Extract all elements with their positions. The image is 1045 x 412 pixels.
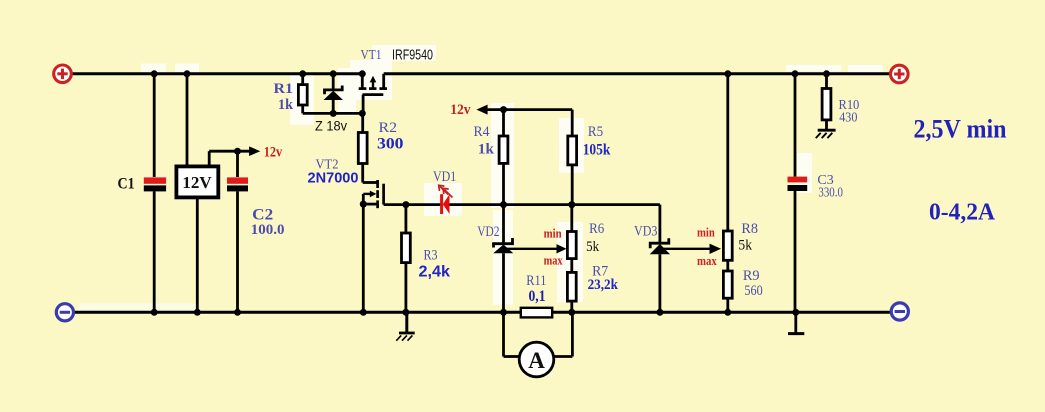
wire wiper VD3 to R8 [661, 248, 710, 250]
white paste patches [78, 45, 883, 311]
svg-text:5k: 5k [586, 239, 599, 255]
svg-text:VD2: VD2 [477, 224, 499, 240]
svg-text:560: 560 [744, 283, 762, 299]
svg-text:R4: R4 [474, 124, 491, 140]
wire node line to LED [406, 203, 441, 206]
wire LED to R4 node [450, 203, 504, 206]
svg-text:IRF9540: IRF9540 [392, 48, 433, 64]
svg-text:23,2k: 23,2k [588, 277, 619, 293]
wire R1-zener-gate node [303, 112, 363, 115]
svg-text:VD1: VD1 [433, 169, 456, 185]
ammeter A [504, 312, 573, 377]
svg-text:12v: 12v [264, 144, 283, 160]
svg-text:R6: R6 [589, 221, 604, 237]
terminal plus right [891, 65, 909, 83]
svg-text:R5: R5 [588, 124, 603, 140]
svg-text:2N7000: 2N7000 [308, 171, 359, 187]
regulator 12V box [176, 74, 218, 312]
wire 12v line [484, 108, 572, 111]
svg-text:300: 300 [377, 135, 404, 152]
svg-text:R9: R9 [743, 268, 760, 284]
svg-text:C1: C1 [118, 175, 135, 192]
wire bottom rail [75, 311, 891, 314]
transistor VT2 (2N7000 n-MOSFET) [363, 180, 406, 208]
potentiometer R8 [723, 74, 732, 271]
resistor R7 [567, 272, 576, 312]
potentiometer R6 [567, 205, 576, 273]
capacitor C1 [144, 74, 166, 312]
resistor R3 [402, 205, 411, 313]
resistor R5 [568, 110, 577, 205]
ground under R3 [396, 312, 414, 340]
svg-text:R3: R3 [424, 248, 438, 264]
resistor R1 [298, 74, 307, 114]
svg-text:VD3: VD3 [634, 224, 657, 240]
svg-text:2,5V min: 2,5V min [914, 115, 1007, 144]
node 12v arrow [249, 146, 260, 156]
svg-text:330.0: 330.0 [818, 185, 843, 200]
wire top rail left segment [72, 72, 362, 75]
node 12v arrow right [476, 105, 487, 115]
transistor VT1 (IRF9540 p-MOSFET) [359, 74, 387, 114]
resistor R2 [358, 113, 367, 182]
svg-text:R11: R11 [526, 273, 546, 289]
wire node line R4 to corner [504, 203, 660, 206]
ground under C3 [788, 312, 804, 333]
svg-text:R2: R2 [379, 120, 398, 136]
svg-text:VT1: VT1 [361, 48, 382, 63]
svg-text:0-4,2A: 0-4,2A [929, 198, 995, 225]
junction dots bottom rail [151, 309, 800, 316]
svg-text:1k: 1k [478, 141, 495, 157]
resistor R10 [822, 74, 831, 130]
svg-text:max: max [544, 254, 564, 268]
capacitor C2 [227, 151, 248, 312]
ground under R10 [816, 130, 836, 138]
svg-text:C2: C2 [252, 207, 273, 224]
svg-text:12V: 12V [182, 173, 212, 192]
svg-text:100.0: 100.0 [251, 222, 285, 238]
zener VD3 [650, 238, 670, 312]
zener Z18v [324, 74, 344, 114]
node wiper arrow R8 [710, 244, 722, 254]
resistor R9 [723, 271, 732, 312]
terminal minus right [891, 303, 908, 320]
wire wiper VD2 to R6 [504, 248, 559, 250]
svg-text:Z 18v: Z 18v [315, 118, 347, 134]
shunt resistor R11 [521, 308, 552, 318]
svg-text:1k: 1k [278, 97, 294, 113]
svg-text:A: A [528, 348, 545, 373]
node wiper arrow R6 [557, 244, 567, 253]
svg-text:R1: R1 [274, 81, 294, 97]
terminal minus left [56, 304, 73, 321]
svg-text:min: min [544, 226, 562, 240]
svg-text:430: 430 [839, 110, 857, 125]
svg-text:105k: 105k [583, 142, 611, 159]
junction dots misc [234, 106, 575, 208]
svg-text:min: min [697, 226, 715, 240]
capacitor C3 [788, 74, 808, 312]
svg-text:0,1: 0,1 [529, 288, 546, 305]
junction dots top rail [151, 70, 830, 77]
svg-text:2,4k: 2,4k [419, 264, 451, 281]
wire VT2 source to bottom rail [362, 204, 365, 312]
zener VD2 [493, 205, 513, 313]
wire top rail right segment [384, 72, 890, 75]
wire corner down to VD3 [659, 205, 662, 243]
svg-text:max: max [697, 254, 717, 268]
svg-text:12v: 12v [450, 102, 471, 118]
svg-text:R8: R8 [741, 221, 758, 237]
resistor R4 [499, 110, 508, 205]
wire 12v output [209, 151, 251, 166]
svg-text:5k: 5k [738, 238, 752, 254]
LED VD1 [439, 185, 453, 214]
terminal plus left [54, 65, 72, 83]
